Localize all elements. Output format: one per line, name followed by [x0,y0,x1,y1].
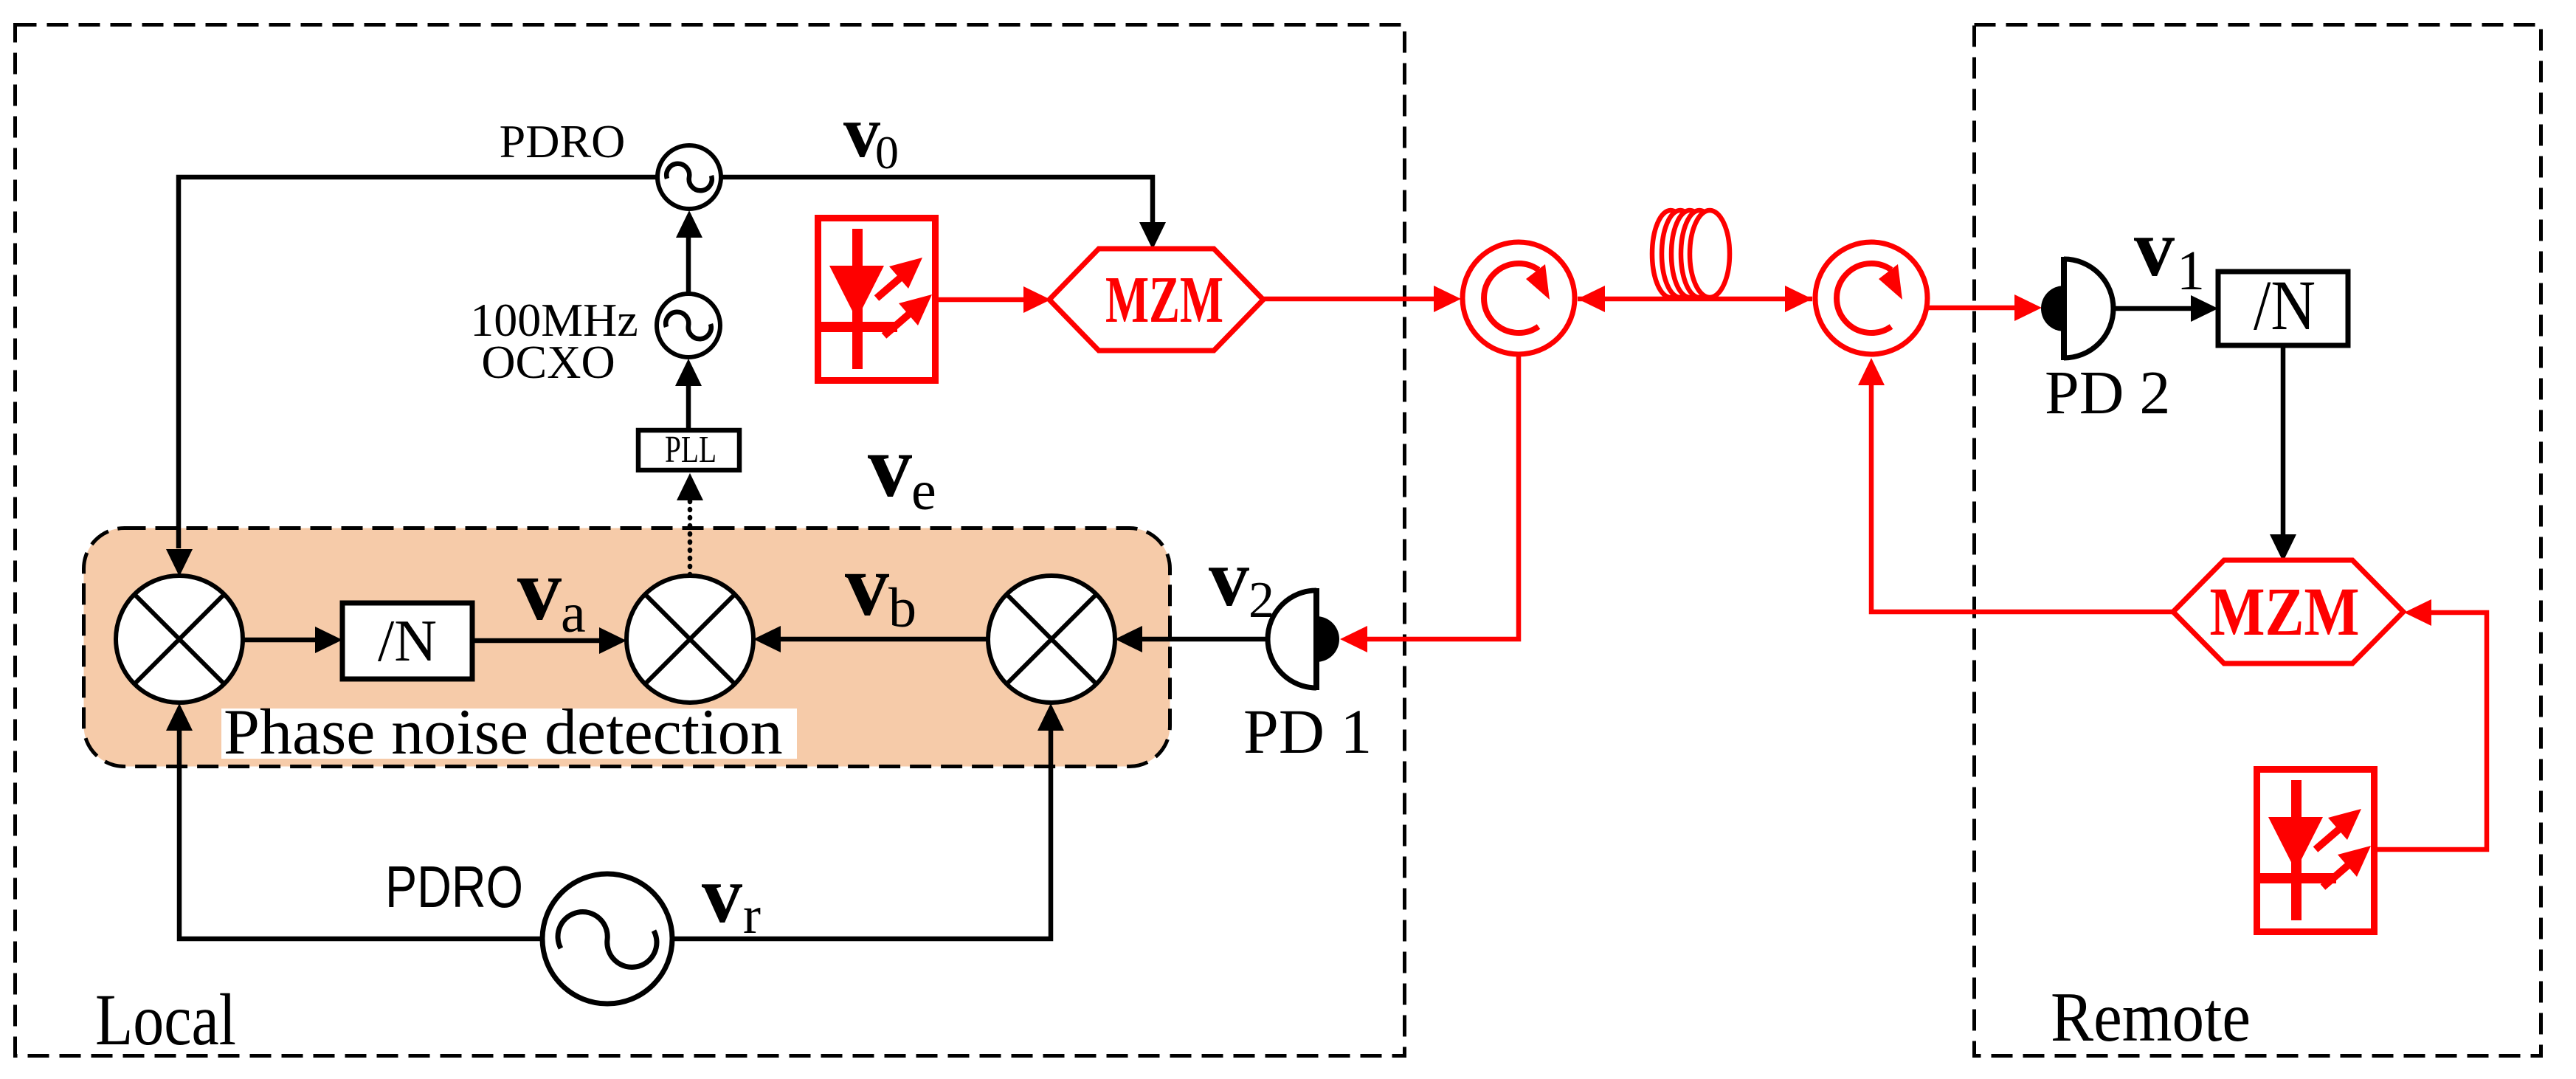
oscillator PDRO2 (bottom, vr source) [542,874,672,1004]
oscillator PDRO1 (top) [657,145,721,209]
svg-text:MZM: MZM [1105,263,1223,337]
wire: PDRO2 (vr) to mixer M1 bottom [179,731,542,939]
mixer M2 [626,576,753,703]
svg-text:2: 2 [1249,572,1274,629]
arrowhead into mixer M1 top [166,549,193,576]
circulator C2 [1815,242,1927,354]
svg-text:v: v [702,849,742,940]
PLL block [638,430,739,470]
enclosure: Phase noise detection shaded box [84,528,1170,767]
svg-text:PDRO: PDRO [385,854,523,920]
svg-text:PLL: PLL [665,429,716,471]
fiber spool (delay line) [1652,210,1730,297]
mixer M3 [988,576,1115,703]
wire: v2 from PD 1 to mixer M3 [1142,637,1268,642]
wire: PDRO2 (vr) to mixer M3 bottom [672,731,1051,939]
svg-text:b: b [888,577,916,639]
svg-text:0: 0 [875,126,899,179]
wire: PDRO1 output to mixer M1 LO (left loop) [179,177,657,548]
Mach-Zehnder modulator U2 (MZM, remote) [2173,560,2403,663]
Mach-Zehnder modulator U1 (MZM, local) [1049,249,1263,351]
wire: v0 from PDRO1 to MZM U1 [721,177,1153,224]
optical fiber: circulator C2 to PD 2 [1926,306,2015,311]
wire: va from divider /N to mixer M2 [472,638,601,644]
svg-text:MZM: MZM [2210,574,2360,650]
svg-text:v: v [517,540,562,638]
enclosure: Local dashed box [15,25,1405,1056]
wire (dotted): ve from mixer M2 to PLL [688,499,693,575]
photodetector PD 1 [1268,588,1339,690]
laser diode LD1 (local) [818,218,936,381]
oscillator OCXO (100MHz) [657,294,720,357]
optical fiber: C1 - fiber spool - C2 (bidirectional) [1578,297,1812,302]
svg-text:OCXO: OCXO [481,336,615,388]
svg-text:PD 2: PD 2 [2045,359,2170,427]
label background strip (white) [221,709,797,759]
optical fiber: MZM U1 to circulator C1 [1263,297,1434,302]
photodetector PD 2 [2041,257,2113,360]
svg-text:/N: /N [2254,266,2316,345]
wire: PLL to OCXO [686,386,691,430]
frequency divider /N (local) [342,603,472,679]
arrowhead into MZM U1 top [1139,222,1166,249]
svg-text:v: v [1209,533,1249,623]
svg-text:r: r [743,886,761,945]
optical fiber: circulator C1 to PD 1 [1367,354,1519,639]
wire: mixer M1 to divider /N [243,638,317,643]
svg-text:PDRO: PDRO [500,115,626,168]
circulator C1 [1463,242,1575,354]
optical fiber: laser LD2 to MZM U2 [2377,613,2487,849]
svg-text:v: v [2134,203,2175,293]
wire: divider /N (remote) to MZM U2 [2281,345,2286,534]
svg-text:e: e [911,460,936,522]
wire: v1 from PD 2 to divider /N (remote) [2113,306,2191,311]
enclosure: Remote dashed box [1975,25,2541,1056]
svg-text:Local: Local [95,979,236,1061]
laser diode LD2 (remote) [2257,770,2375,932]
mixer M1 [116,576,243,703]
frequency divider /N (remote) [2218,272,2348,345]
svg-text:a: a [561,582,586,644]
wire: OCXO to PDRO1 [686,238,691,294]
svg-text:PD 1: PD 1 [1243,696,1372,767]
optical fiber: MZM U2 to circulator C2 [1871,385,2173,612]
optical fiber: laser LD1 to MZM U1 [939,297,1025,303]
svg-text:Phase noise detection: Phase noise detection [224,697,783,768]
wire: vb from mixer M3 to mixer M2 [781,637,988,642]
svg-text:/N: /N [378,609,437,674]
svg-text:v: v [868,417,912,515]
svg-text:Remote: Remote [2051,978,2251,1056]
svg-text:v: v [845,536,889,634]
svg-text:1: 1 [2177,240,2205,302]
